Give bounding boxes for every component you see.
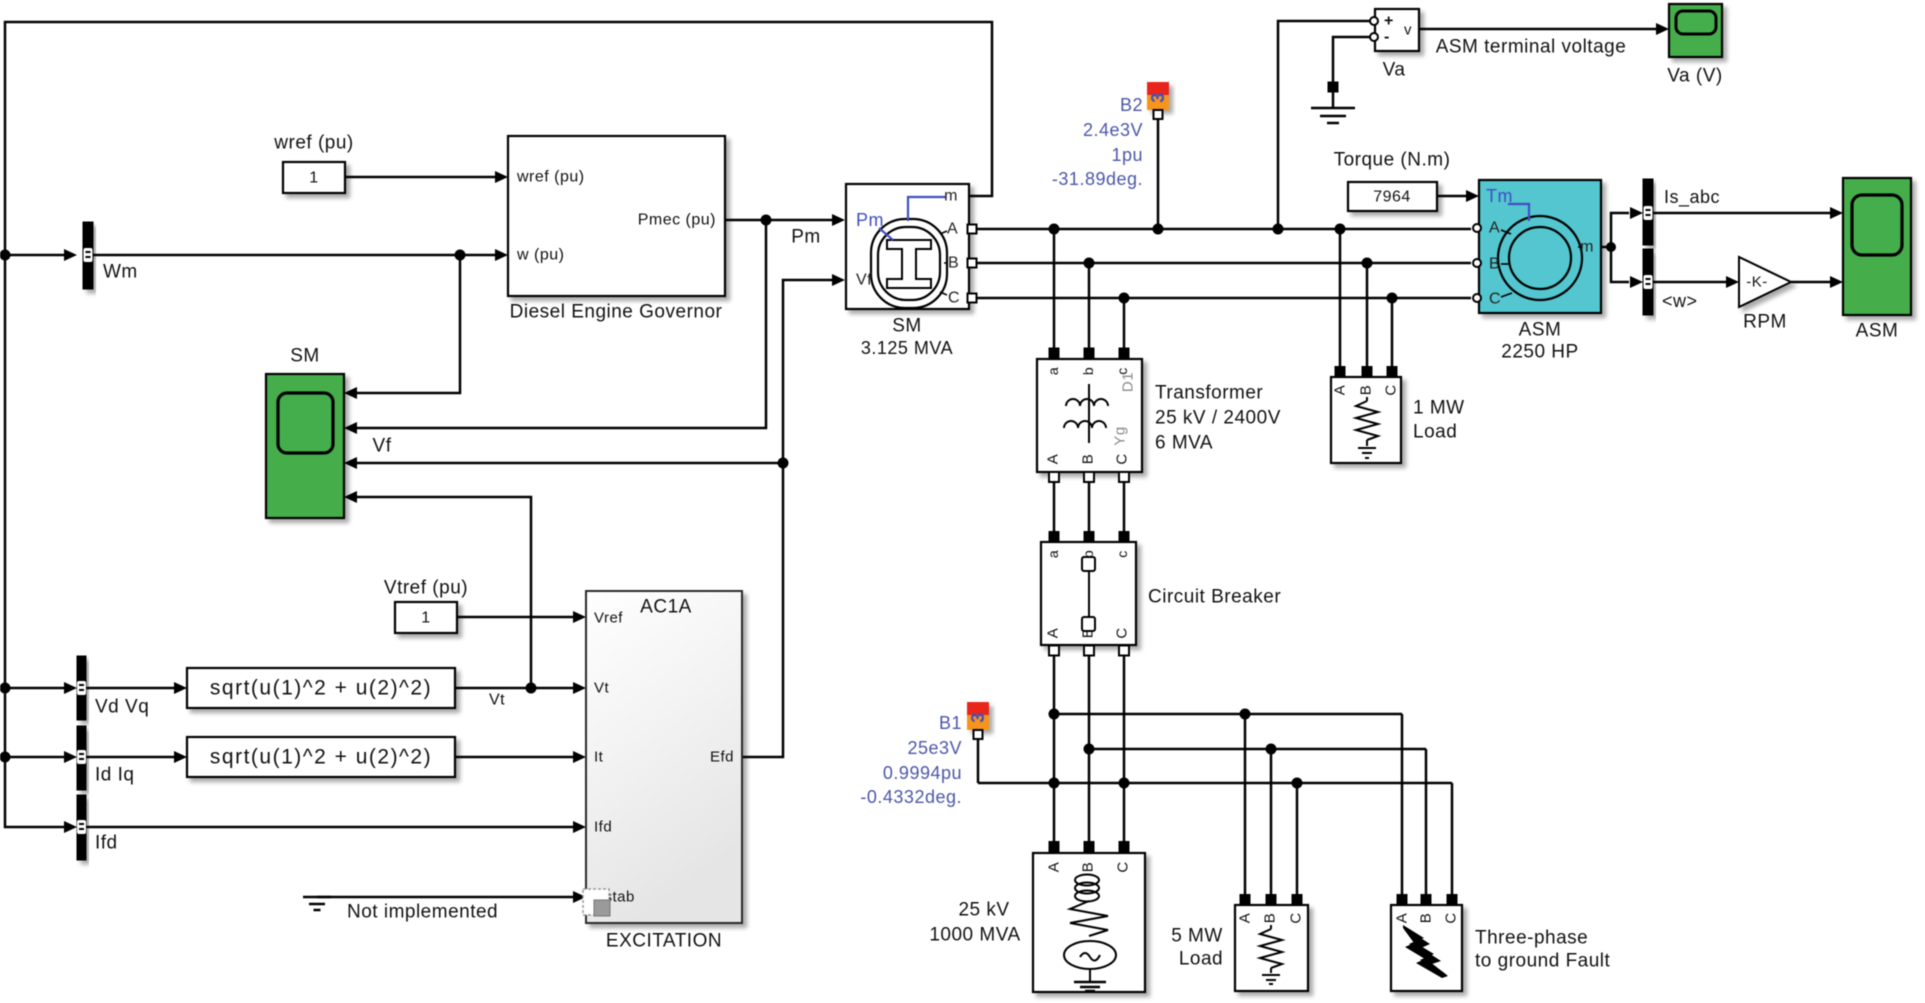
svg-text:Torque (N.m): Torque (N.m) xyxy=(1334,150,1451,171)
svg-text:-31.89deg.: -31.89deg. xyxy=(1052,169,1143,189)
svg-text:Load: Load xyxy=(1413,422,1457,443)
svg-text:Diesel Engine Governor: Diesel Engine Governor xyxy=(510,302,723,323)
svg-text:3: 3 xyxy=(968,712,988,723)
svg-text:Vf: Vf xyxy=(856,272,872,289)
svg-text:SM: SM xyxy=(290,346,320,367)
svg-text:Load: Load xyxy=(1179,949,1223,970)
svg-text:A: A xyxy=(1237,913,1254,924)
svg-text:1: 1 xyxy=(309,170,318,187)
svg-text:AC1A: AC1A xyxy=(640,597,692,618)
svg-text:D1: D1 xyxy=(1120,372,1137,392)
svg-text:A: A xyxy=(1394,913,1411,924)
svg-text:A: A xyxy=(1332,385,1349,396)
svg-text:RPM: RPM xyxy=(1743,312,1787,333)
svg-text:Transformer: Transformer xyxy=(1155,383,1263,404)
svg-text:2.4e3V: 2.4e3V xyxy=(1083,120,1143,140)
svg-text:Vtref (pu): Vtref (pu) xyxy=(384,578,468,599)
svg-text:a: a xyxy=(1045,550,1061,558)
svg-text:-: - xyxy=(1384,29,1390,46)
svg-text:SM: SM xyxy=(892,316,922,337)
svg-text:Pmec (pu): Pmec (pu) xyxy=(638,212,716,229)
svg-text:Circuit Breaker: Circuit Breaker xyxy=(1148,587,1281,608)
svg-text:A: A xyxy=(1489,220,1500,237)
svg-text:Pm: Pm xyxy=(791,227,821,248)
svg-text:wref (pu): wref (pu) xyxy=(273,133,353,154)
svg-text:Vd Vq: Vd Vq xyxy=(95,697,149,718)
svg-text:25e3V: 25e3V xyxy=(907,738,962,758)
svg-text:3: 3 xyxy=(1148,92,1168,103)
svg-text:ASM: ASM xyxy=(1519,320,1562,341)
svg-text:v: v xyxy=(1404,22,1412,39)
svg-text:0.9994pu: 0.9994pu xyxy=(883,763,962,783)
svg-text:Efd: Efd xyxy=(710,749,734,766)
svg-text:3.125 MVA: 3.125 MVA xyxy=(861,338,953,358)
svg-text:b: b xyxy=(1080,367,1096,375)
svg-text:Vf: Vf xyxy=(373,436,392,457)
svg-text:c: c xyxy=(1114,550,1130,558)
svg-text:1 MW: 1 MW xyxy=(1413,398,1465,419)
svg-text:B1: B1 xyxy=(939,713,962,733)
svg-text:+: + xyxy=(1384,13,1394,30)
svg-text:ASM: ASM xyxy=(1856,321,1899,342)
svg-text:sqrt(u(1)^2 + u(2)^2): sqrt(u(1)^2 + u(2)^2) xyxy=(210,677,432,700)
svg-text:to ground Fault: to ground Fault xyxy=(1475,951,1611,972)
svg-text:Is_abc: Is_abc xyxy=(1664,187,1720,208)
svg-text:B2: B2 xyxy=(1120,95,1143,115)
svg-text:1000 MVA: 1000 MVA xyxy=(929,925,1020,946)
svg-text:1: 1 xyxy=(421,610,430,627)
svg-text:Vt: Vt xyxy=(594,680,610,697)
svg-text:B: B xyxy=(1080,862,1097,873)
svg-text:1pu: 1pu xyxy=(1111,145,1143,165)
svg-text:A: A xyxy=(947,221,958,238)
svg-text:Vt: Vt xyxy=(489,692,505,709)
svg-text:Not implemented: Not implemented xyxy=(347,902,498,923)
svg-text:w (pu): w (pu) xyxy=(516,247,564,264)
svg-text:A: A xyxy=(1046,862,1063,873)
svg-text:C: C xyxy=(1115,861,1132,872)
svg-text:C: C xyxy=(1114,627,1131,638)
svg-text:25 kV: 25 kV xyxy=(958,900,1009,921)
svg-text:B: B xyxy=(1080,454,1097,465)
svg-text:m: m xyxy=(944,188,958,205)
svg-text:7964: 7964 xyxy=(1373,189,1411,206)
svg-text:EXCITATION: EXCITATION xyxy=(606,931,722,952)
svg-text:B: B xyxy=(948,255,959,272)
svg-text:Tm: Tm xyxy=(1486,186,1513,206)
svg-text:5 MW: 5 MW xyxy=(1171,926,1223,947)
svg-text:-0.4332deg.: -0.4332deg. xyxy=(860,787,962,807)
svg-text:Ifd: Ifd xyxy=(594,819,612,836)
svg-text:B: B xyxy=(1262,913,1279,924)
svg-text:B: B xyxy=(1418,913,1435,924)
svg-text:C: C xyxy=(1288,912,1305,923)
svg-text:Pm: Pm xyxy=(856,210,884,230)
svg-text:C: C xyxy=(1114,453,1131,464)
svg-text:Id Iq: Id Iq xyxy=(95,765,134,786)
svg-text:2250 HP: 2250 HP xyxy=(1501,342,1578,363)
svg-text:A: A xyxy=(1045,454,1062,465)
svg-text:C: C xyxy=(948,290,960,307)
svg-text:Yg: Yg xyxy=(1112,426,1129,445)
svg-text:ASM terminal voltage: ASM terminal voltage xyxy=(1436,37,1627,58)
svg-text:C: C xyxy=(1383,384,1400,395)
svg-text:It: It xyxy=(594,749,604,766)
svg-text:Ifd: Ifd xyxy=(95,833,118,854)
svg-text:Wm: Wm xyxy=(103,262,138,283)
svg-text:wref (pu): wref (pu) xyxy=(516,169,585,186)
svg-text:A: A xyxy=(1045,628,1062,639)
svg-text:C: C xyxy=(1489,291,1501,308)
svg-text:6 MVA: 6 MVA xyxy=(1155,433,1213,454)
svg-text:<w>: <w> xyxy=(1662,291,1698,311)
svg-text:B: B xyxy=(1489,256,1500,273)
svg-text:m: m xyxy=(1580,239,1594,256)
svg-text:25 kV / 2400V: 25 kV / 2400V xyxy=(1155,408,1281,429)
svg-text:B: B xyxy=(1358,385,1375,396)
svg-text:C: C xyxy=(1443,912,1460,923)
svg-text:Three-phase: Three-phase xyxy=(1475,928,1588,949)
svg-text:Va: Va xyxy=(1383,60,1406,81)
svg-text:a: a xyxy=(1045,367,1061,375)
svg-text:sqrt(u(1)^2 + u(2)^2): sqrt(u(1)^2 + u(2)^2) xyxy=(210,746,432,769)
svg-text:Vref: Vref xyxy=(594,610,623,627)
svg-text:Va (V): Va (V) xyxy=(1667,66,1722,87)
svg-text:-K-: -K- xyxy=(1746,274,1768,291)
